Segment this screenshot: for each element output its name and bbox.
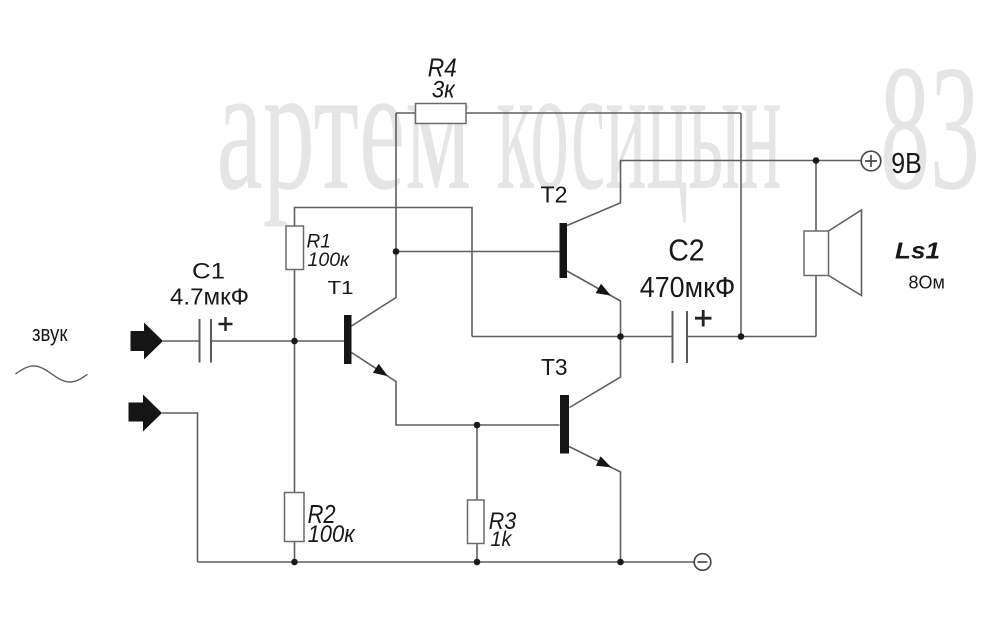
svg-text:Ls1: Ls1 (895, 238, 940, 264)
svg-text:1k: 1k (491, 528, 513, 551)
svg-text:косицын: косицын (497, 28, 782, 227)
svg-text:470мкФ: 470мкФ (640, 272, 736, 304)
svg-text:4.7мкФ: 4.7мкФ (170, 284, 249, 310)
svg-text:T3: T3 (541, 354, 568, 380)
svg-text:3к: 3к (432, 77, 457, 104)
svg-text:T2: T2 (541, 182, 568, 208)
svg-text:C1: C1 (192, 258, 225, 283)
svg-text:T1: T1 (328, 278, 354, 298)
svg-text:100к: 100к (308, 249, 351, 271)
svg-text:83: 83 (880, 28, 980, 227)
svg-text:8Ом: 8Ом (909, 273, 945, 293)
svg-text:9В: 9В (891, 148, 922, 180)
svg-text:звук: звук (32, 321, 68, 346)
svg-text:C2: C2 (668, 232, 705, 267)
svg-text:100к: 100к (308, 521, 357, 548)
